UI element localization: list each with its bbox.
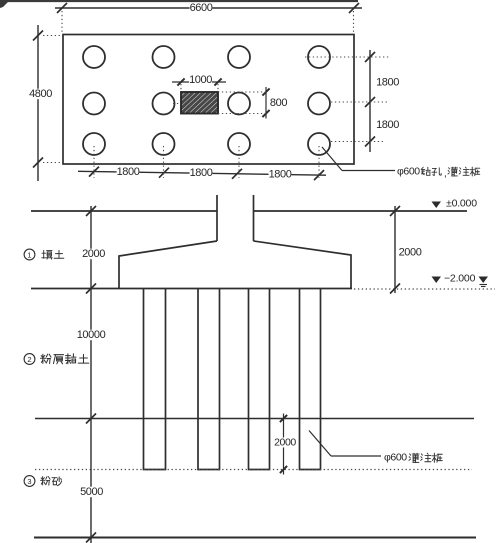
dimension 2000 (pile embedment in sand) [283, 414, 285, 475]
left elevation dimension line [90, 206, 92, 543]
svg-text:2000: 2000 [82, 248, 105, 260]
extension line left [61, 11, 63, 33]
svg-text:1800: 1800 [117, 166, 140, 178]
dimension 4800 (left) [37, 25, 39, 181]
svg-text:3: 3 [27, 477, 31, 486]
pile circle row1 col2 [153, 46, 175, 68]
pile 1 (section) [144, 289, 166, 470]
svg-text:−2.000: −2.000 [444, 273, 476, 285]
column (section) [216, 195, 218, 241]
pile circle row3 col2 [153, 133, 175, 155]
svg-text:2: 2 [27, 355, 31, 364]
pile cap (section) [119, 241, 351, 289]
dimension 2000 (right, cap depth) [394, 206, 396, 293]
dimension 1800 column spacing (bottom) [78, 171, 326, 175]
elevation mark +-0.000 [432, 202, 442, 209]
pile 2 (section) [198, 289, 220, 470]
svg-text:6600: 6600 [190, 2, 213, 14]
svg-text:1800: 1800 [376, 119, 399, 131]
dimension 1000 (column width) [172, 81, 226, 83]
dimension 1800 row spacing (right) [369, 50, 371, 152]
pile circle row1 col3 [228, 46, 250, 68]
svg-text:1800: 1800 [269, 168, 292, 180]
level line -2.000 [31, 288, 352, 290]
svg-text:2000: 2000 [274, 437, 296, 449]
svg-text:800: 800 [270, 97, 287, 109]
svg-text:1000: 1000 [189, 74, 212, 86]
soil layer boundary line (layer 2/3) [35, 418, 474, 420]
pile circle row2 col4 [308, 93, 330, 115]
svg-text:10000: 10000 [77, 329, 106, 341]
svg-text:2000: 2000 [399, 247, 422, 259]
leader line to pile circle [322, 147, 342, 171]
dim text 5000 layer3 [80, 487, 103, 497]
svg-text:φ600: φ600 [384, 452, 407, 464]
pile circle row3 col3 [228, 133, 250, 155]
scan border top edge [0, 0, 358, 2]
dimension 800 (column height) [265, 87, 267, 119]
svg-text:1800: 1800 [376, 77, 399, 89]
leader line to pile 4 [309, 431, 331, 457]
svg-text:φ600: φ600 [397, 166, 420, 178]
pile circle row1 col1 [83, 46, 105, 68]
dimension 6600 (top) [55, 7, 362, 9]
label (1) fill soil [24, 249, 35, 260]
scan artifact top-left corner [0, 0, 10, 8]
elevation mark -2.000 [432, 277, 442, 284]
dim text 2000 layer1 [82, 249, 105, 259]
pile tip level (dotted) [35, 469, 472, 471]
label (3) silty sand [24, 476, 35, 487]
ground base line (bottom) [34, 537, 476, 539]
groundwater table symbol [479, 277, 489, 284]
pile circle row1 col4 [308, 46, 330, 68]
dim text 10000 layer2 [77, 330, 106, 340]
pile 3 (section) [249, 289, 270, 470]
svg-text:1: 1 [27, 250, 31, 259]
extension line right [353, 11, 355, 33]
pile circle row2 col2 [153, 93, 175, 115]
pile circle row3 col1 [83, 133, 105, 155]
label (2) silty clay [24, 354, 35, 365]
ground line +-0.000 [31, 210, 217, 212]
pile circle row2 col1 [83, 93, 105, 115]
svg-text:5000: 5000 [80, 486, 103, 498]
svg-text:,: , [444, 169, 447, 180]
pile circle row2 col3 [228, 93, 250, 115]
svg-text:4800: 4800 [29, 88, 52, 100]
svg-text:1800: 1800 [190, 167, 213, 179]
pile cap outline (plan view) [63, 35, 354, 165]
svg-text:±0.000: ±0.000 [446, 198, 477, 210]
pile 4 (section) [300, 289, 321, 470]
pile circle row3 col4 [308, 133, 330, 155]
